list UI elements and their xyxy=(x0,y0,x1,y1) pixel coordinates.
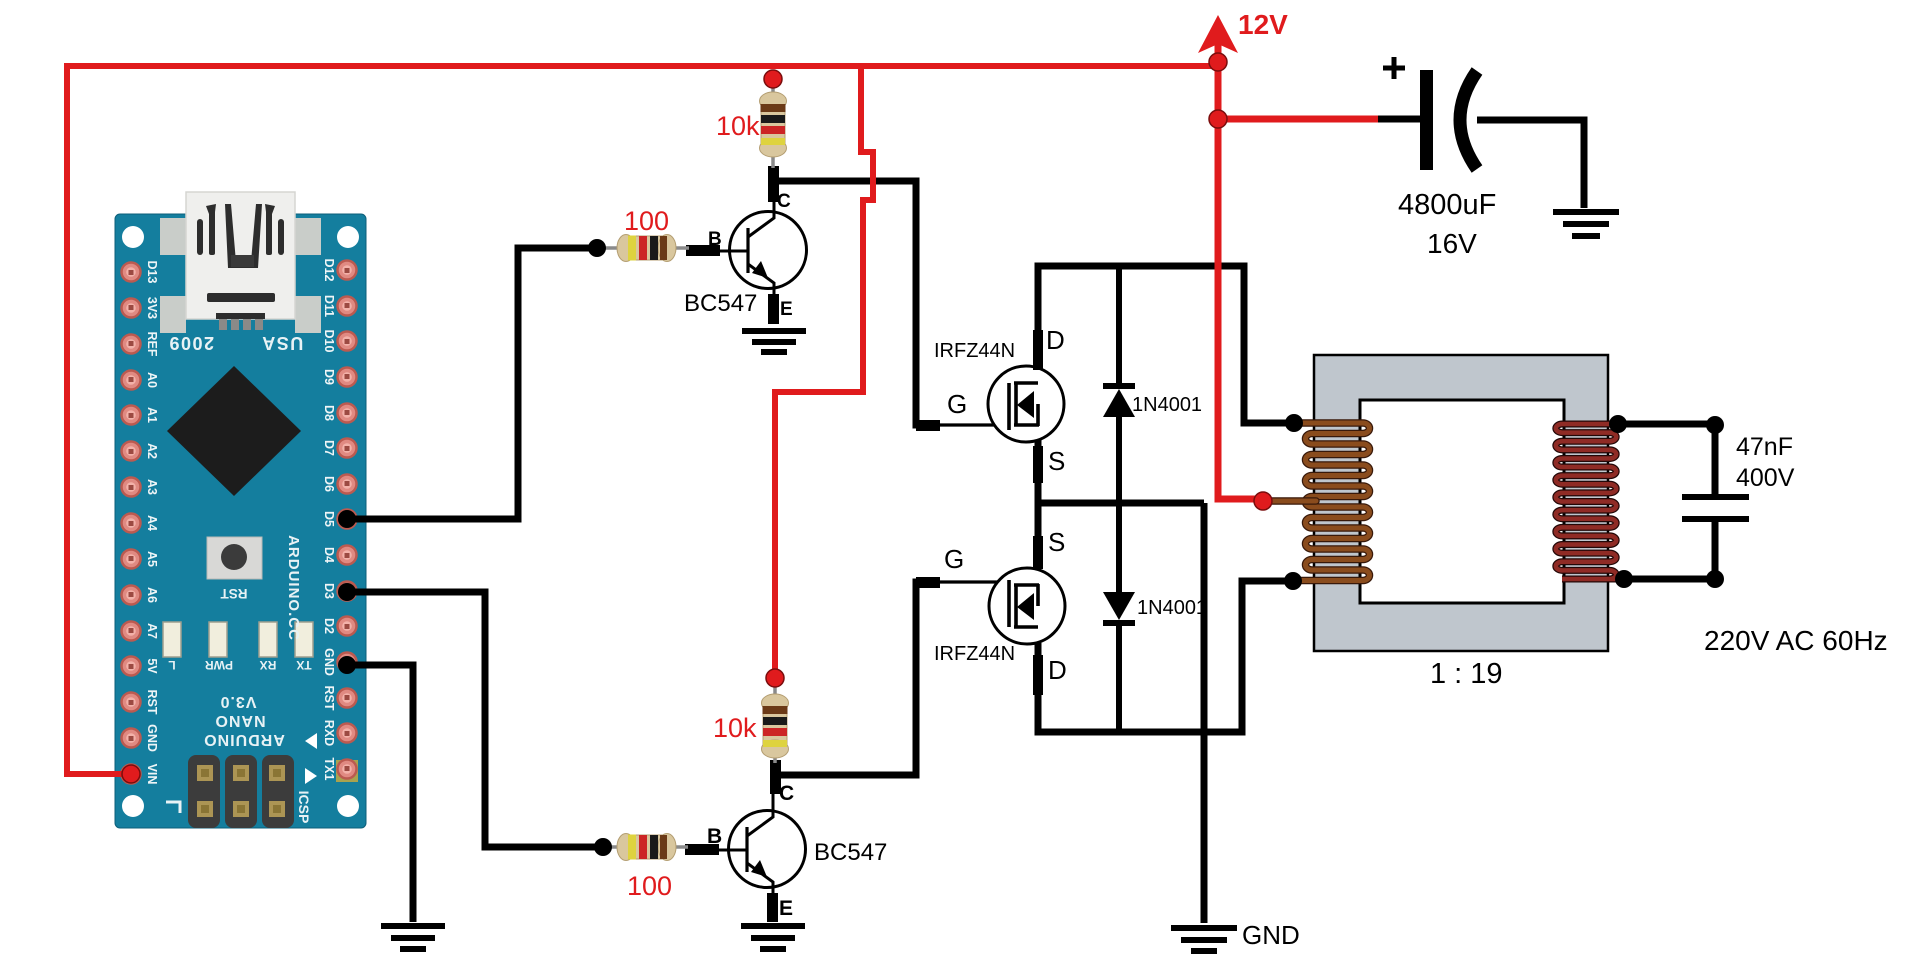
resistor R2 100 body xyxy=(617,235,676,262)
node T1 center tap junction xyxy=(1254,492,1272,510)
Q3 drain stub xyxy=(1033,330,1043,370)
transistor Q4 IRFZ44N xyxy=(989,568,1065,644)
node GND pin junction xyxy=(338,656,356,674)
node Q2 base junction xyxy=(594,838,612,856)
svg-text:D7: D7 xyxy=(322,440,336,456)
svg-text:D: D xyxy=(1046,325,1065,355)
svg-text:RST: RST xyxy=(322,686,336,711)
red wire to C1 xyxy=(1218,116,1378,123)
svg-text:A3: A3 xyxy=(145,479,159,495)
node T1 primary bottom terminal xyxy=(1284,572,1302,590)
svg-text:A0: A0 xyxy=(145,372,159,388)
pin labels xyxy=(145,259,336,785)
transformer T1 core xyxy=(1314,355,1608,651)
svg-text:D12: D12 xyxy=(322,259,336,282)
svg-text:100: 100 xyxy=(624,206,669,236)
wire gate lead Q4 xyxy=(938,580,1007,583)
svg-text:16V: 16V xyxy=(1427,228,1477,259)
resistor R1 10k body xyxy=(760,92,787,157)
svg-text:C: C xyxy=(779,782,794,805)
RXD TX1 arrows xyxy=(305,733,317,749)
svg-text:BC547: BC547 xyxy=(684,290,757,317)
diode D2 leads xyxy=(1116,503,1122,593)
svg-text:1N4001: 1N4001 xyxy=(1132,394,1202,416)
labels G D S (Q3) xyxy=(947,325,1065,476)
ground (C1) xyxy=(1553,212,1619,236)
svg-text:C: C xyxy=(777,191,791,212)
wire D3 to base resistor R4 xyxy=(347,592,603,847)
resistor R2 100 leads xyxy=(592,246,620,250)
resistor R4 100 leads xyxy=(596,845,622,849)
svg-text:S: S xyxy=(1048,527,1065,557)
svg-text:1 : 19: 1 : 19 xyxy=(1430,658,1503,690)
wire Q1 collector to Q3 gate xyxy=(773,181,938,425)
wire 12V to capacitor C1 xyxy=(1375,116,1424,123)
svg-text:220V AC 60Hz: 220V AC 60Hz xyxy=(1704,625,1888,656)
svg-text:TX1: TX1 xyxy=(322,758,336,781)
svg-text:ICSP: ICSP xyxy=(296,791,312,824)
svg-text:NANO: NANO xyxy=(214,712,265,729)
transformer secondary winding xyxy=(1556,424,1624,579)
node T1 secondary bottom terminal xyxy=(1615,570,1633,588)
wire GND pin to ground xyxy=(347,665,413,922)
diode D1 leads xyxy=(1116,266,1122,385)
svg-text:RST: RST xyxy=(220,586,248,601)
Q4 drain stub xyxy=(1033,655,1043,695)
svg-text:D6: D6 xyxy=(322,476,336,492)
svg-text:A4: A4 xyxy=(145,515,159,531)
svg-text:TX: TX xyxy=(296,658,311,672)
svg-text:D5: D5 xyxy=(322,511,336,527)
plus sign xyxy=(1383,57,1405,79)
svg-text:G: G xyxy=(947,389,967,419)
resistor R4 100 body xyxy=(617,834,676,861)
wire C2 to secondary bottom xyxy=(1712,522,1719,579)
LEDs L PWR RX TX xyxy=(163,622,313,672)
svg-text:B: B xyxy=(708,229,722,250)
header pins left and right xyxy=(122,261,357,784)
svg-text:RX: RX xyxy=(260,658,277,672)
wire secondary top to C2 xyxy=(1618,421,1715,428)
svg-text:IRFZ44N: IRFZ44N xyxy=(934,643,1015,665)
resistor R1 10k leads xyxy=(771,84,775,97)
svg-text:RXD: RXD xyxy=(322,720,336,746)
svg-text:10k: 10k xyxy=(716,111,760,141)
svg-text:D2: D2 xyxy=(322,618,336,634)
Q1 emitter stub xyxy=(768,294,779,324)
transistor Q2 BC547 xyxy=(717,804,806,893)
MCU chip (black diamond) xyxy=(167,366,301,496)
svg-text:D13: D13 xyxy=(145,261,159,284)
svg-text:S: S xyxy=(1048,446,1065,476)
node 12V rail junction xyxy=(1209,53,1227,71)
node D3 pin junction xyxy=(338,583,356,601)
Q2 collector stub xyxy=(770,760,781,794)
svg-text:D10: D10 xyxy=(322,330,336,353)
svg-text:GND: GND xyxy=(1242,920,1300,950)
svg-text:D: D xyxy=(1048,655,1067,685)
svg-text:A6: A6 xyxy=(145,587,159,603)
Arduino Nano U1 board xyxy=(115,214,366,828)
svg-text:D4: D4 xyxy=(322,547,336,563)
svg-text:3V3: 3V3 xyxy=(145,297,159,319)
transistor Q1 BC547 xyxy=(718,205,807,294)
svg-text:REF: REF xyxy=(145,332,159,357)
USB connector J1 xyxy=(186,192,295,330)
red wire branch to R1 node xyxy=(775,66,873,676)
wire D5 to base resistor R2 xyxy=(347,248,597,519)
svg-text:L: L xyxy=(168,658,175,672)
svg-text:IRFZ44N: IRFZ44N xyxy=(934,340,1015,362)
resistor R3 10k leads xyxy=(773,684,777,699)
svg-text:2009: 2009 xyxy=(168,333,214,353)
svg-text:G: G xyxy=(944,544,964,574)
svg-text:D8: D8 xyxy=(322,405,336,421)
labels B C E (Q1) xyxy=(708,191,793,320)
node C2 bottom junction xyxy=(1706,570,1724,588)
node D5 pin junction xyxy=(338,510,356,528)
Q3 source stub xyxy=(1033,446,1043,483)
RST button xyxy=(207,537,262,601)
capacitor C1 4800uF polarized xyxy=(1420,70,1477,170)
svg-text:USA: USA xyxy=(261,333,304,353)
svg-text:GND: GND xyxy=(145,724,159,752)
ground (Q2 emitter) xyxy=(741,926,805,949)
wire gate lead Q3 xyxy=(938,423,1007,426)
node T1 primary top terminal xyxy=(1285,414,1303,432)
svg-text:ARDUINO.CC: ARDUINO.CC xyxy=(285,535,302,641)
svg-text:A1: A1 xyxy=(145,407,159,423)
svg-text:A2: A2 xyxy=(145,443,159,459)
board silkscreen 2009 USA xyxy=(168,333,303,353)
wire Q3 drain to transformer primary top xyxy=(1038,266,1294,423)
diode D1 1N4001 symbol xyxy=(1103,386,1135,417)
wire Q4 drain to transformer primary bottom xyxy=(1038,581,1293,732)
labels B C E (Q2) xyxy=(707,782,794,920)
resistor R3 10k body xyxy=(762,694,789,758)
svg-text:47nF: 47nF xyxy=(1736,433,1793,461)
svg-text:BC547: BC547 xyxy=(814,839,887,866)
12V supply arrow xyxy=(1198,15,1238,53)
svg-text:V3.0: V3.0 xyxy=(220,693,257,710)
node 12V cap branch junction xyxy=(1209,110,1227,128)
Q2 base stub xyxy=(685,844,719,855)
primary center tap wire xyxy=(1263,497,1316,505)
node VIN pin junction xyxy=(122,765,140,783)
wire midpoint to ground GND net xyxy=(1201,503,1208,923)
svg-text:RST: RST xyxy=(145,690,159,715)
silkscreen ARDUINO NANO V3.0 xyxy=(203,693,285,748)
svg-text:5V: 5V xyxy=(145,658,159,674)
svg-text:E: E xyxy=(780,299,793,320)
node T1 secondary top terminal xyxy=(1609,415,1627,433)
svg-text:D11: D11 xyxy=(322,295,336,317)
svg-text:GND: GND xyxy=(322,648,336,676)
ground (power stage) xyxy=(1171,928,1237,951)
ground (arduino) xyxy=(381,926,445,949)
capacitor C2 47nF xyxy=(1682,494,1749,522)
TX1 gold pad xyxy=(336,760,358,782)
wire Q3 source / Q4 source midpoint xyxy=(1035,440,1042,569)
Q1 base stub xyxy=(686,245,720,256)
svg-text:400V: 400V xyxy=(1736,464,1795,492)
svg-text:D3: D3 xyxy=(322,583,336,599)
svg-text:A5: A5 xyxy=(145,551,159,567)
node Q1 base junction xyxy=(588,239,606,257)
diode D2 1N4001 symbol xyxy=(1103,592,1135,623)
svg-text:PWR: PWR xyxy=(205,658,233,672)
svg-text:ARDUINO: ARDUINO xyxy=(203,731,285,748)
transistor Q3 IRFZ44N xyxy=(988,366,1064,442)
ground (Q1 emitter) xyxy=(742,331,806,352)
labels G S D (Q4) xyxy=(944,527,1067,685)
svg-text:E: E xyxy=(779,897,793,920)
svg-text:D9: D9 xyxy=(322,369,336,385)
svg-text:4800uF: 4800uF xyxy=(1398,189,1496,221)
svg-text:10k: 10k xyxy=(713,713,757,743)
svg-text:A7: A7 xyxy=(145,623,159,639)
svg-text:1N4001: 1N4001 xyxy=(1137,597,1207,619)
node R3 top junction xyxy=(766,669,784,687)
svg-text:12V: 12V xyxy=(1238,9,1288,40)
svg-text:100: 100 xyxy=(627,871,672,901)
node R1 top junction xyxy=(764,70,782,88)
red wire 12V down to center tap xyxy=(1218,119,1263,499)
red wire 12V arrow shaft xyxy=(1215,40,1222,119)
Q4 source stub xyxy=(1033,536,1043,569)
Q2 emitter stub xyxy=(767,893,778,922)
wire C1 to ground xyxy=(1477,120,1584,208)
Q1 collector stub xyxy=(768,166,779,202)
transformer primary winding xyxy=(1293,423,1370,581)
svg-text:B: B xyxy=(707,825,722,848)
svg-text:VIN: VIN xyxy=(145,764,159,785)
node C2 top junction xyxy=(1706,416,1724,434)
red wire VIN to 12V rail xyxy=(67,66,1218,774)
L-mark xyxy=(166,802,180,813)
ICSP header xyxy=(188,755,312,828)
wire Q2 collector to Q4 gate xyxy=(775,582,938,775)
